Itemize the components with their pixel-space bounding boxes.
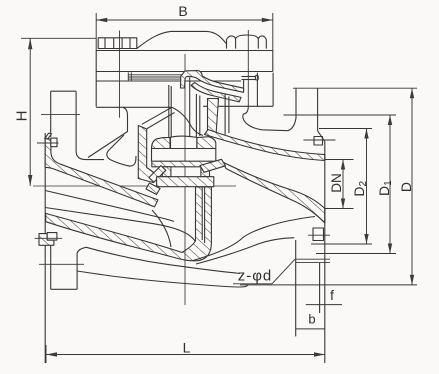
dim H lines: [21, 38, 96, 186]
flange bottom bolt hole: [313, 228, 324, 241]
dim L arrows: [46, 352, 325, 356]
flange top bolt hole: [314, 137, 323, 146]
svg-text:L: L: [183, 340, 191, 356]
neck right wall band: [208, 99, 219, 136]
bolt right hex head: [227, 35, 267, 49]
svg-text:B: B: [178, 3, 187, 19]
dim D1: [284, 115, 397, 254]
outlet upper wall band R1: [205, 130, 325, 161]
svg-text:H: H: [14, 111, 31, 122]
left flange upper bolt hole: [51, 138, 57, 147]
guide lower band: [191, 83, 241, 102]
bonnet flange: [96, 51, 273, 107]
guide tube lines: [169, 78, 200, 138]
inlet bore back edge lower: [45, 208, 195, 242]
pipe centerline left: [33, 185, 236, 187]
body funnel edge: [88, 107, 128, 157]
svg-text:DN: DN: [329, 173, 344, 193]
svg-text:D2: D2: [351, 181, 369, 197]
left flange top flag: [45, 133, 52, 139]
flange lower ticks: [296, 258, 330, 260]
disc boss: [171, 136, 197, 148]
dim D2: [311, 129, 372, 245]
body flange: [96, 73, 273, 108]
body bottom outline: [77, 271, 248, 287]
guide arch band: [181, 71, 244, 93]
left flange lower bolt hole: [47, 233, 57, 241]
inlet plenum rib arc: [152, 210, 171, 247]
seat ring right lip: [200, 159, 226, 172]
outlet lower wall band R2: [223, 162, 325, 223]
inlet upper wall band: [45, 139, 158, 207]
svg-text:b: b: [308, 312, 315, 327]
neck outer wall lines: [224, 94, 226, 135]
inlet bore back edge upper: [45, 191, 174, 222]
flange hub bottom left edge: [295, 240, 297, 336]
flange raised face line: [319, 263, 321, 313]
disc left rim: [152, 138, 171, 149]
body bottom inner line: [77, 247, 240, 273]
svg-text:D: D: [398, 182, 414, 192]
flange face line: [324, 142, 326, 364]
inlet pocket outline: [107, 135, 136, 166]
outlet hub left edge: [288, 88, 296, 130]
bonnet neck left outer band: [142, 107, 175, 129]
seat ring: [157, 177, 214, 187]
bonnet dome: [137, 31, 227, 48]
svg-text:z-φd: z-φd: [238, 268, 273, 285]
svg-text:D1: D1: [376, 180, 394, 196]
dim DN: [324, 160, 354, 209]
dim B extension lines: [96, 13, 273, 51]
disc body: [152, 149, 216, 162]
seat left lip: [149, 166, 166, 183]
dim B arrows: [96, 18, 273, 22]
bolt left head: [98, 38, 137, 49]
outlet cavity curve upper: [193, 217, 315, 261]
seat tube bore lines: [202, 188, 204, 242]
bonnet neck inner-left curve: [172, 107, 203, 135]
bolt right centerline: [247, 30, 249, 106]
body right shoulder hook: [243, 106, 288, 130]
left flange face: [44, 133, 46, 363]
dim H arrows: [28, 38, 32, 186]
left vertical tube: [41, 91, 104, 159]
dim L lines: [46, 345, 325, 363]
svg-text:f: f: [330, 288, 334, 303]
dim D: [240, 88, 417, 285]
seat corner wedge: [146, 183, 160, 195]
bolt left centerline: [119, 31, 121, 118]
outlet hub top and right: [318, 88, 325, 141]
disc legs: [162, 167, 171, 177]
disc right rim: [197, 137, 216, 149]
center axis line: [184, 54, 186, 305]
gland bolt stub right: [242, 75, 259, 90]
gasket lines: [128, 72, 184, 81]
left flange bottom foot: [39, 245, 84, 289]
disc bottom plate: [152, 161, 217, 167]
left flange lower bolt hole hatch: [39, 234, 54, 246]
neck left wall band: [138, 126, 158, 183]
outlet cavity curve lower: [196, 238, 294, 264]
inlet lower wall band + seat tube: [46, 187, 212, 261]
